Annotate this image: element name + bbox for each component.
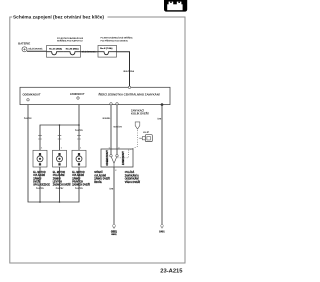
svg-text:G601: G601 bbox=[111, 234, 117, 236]
motor box M2 (left rear door lock actuator) bbox=[53, 150, 67, 167]
wire label ŽLU/ČRV bbox=[24, 117, 33, 120]
svg-text:ZAMYKÁNÍ A: ZAMYKÁNÍ A bbox=[125, 174, 139, 177]
svg-text:ŽLU/ČRV: ŽLU/ČRV bbox=[56, 187, 65, 190]
svg-text:2: 2 bbox=[115, 170, 116, 172]
junction node distributor-motor2 bbox=[59, 124, 61, 126]
title: Schéma zapojení (bez otvírání bez klíče) bbox=[13, 15, 104, 20]
pin number 3 at switch bbox=[118, 147, 119, 149]
motor M2 label bbox=[53, 172, 71, 186]
terminal: lock switch 2 bbox=[116, 103, 118, 105]
wire lock output distributor bbox=[40, 105, 79, 151]
fuse No.21 (80A) bbox=[47, 47, 64, 55]
svg-text:ODEMKNOUT: ODEMKNOUT bbox=[105, 150, 109, 166]
motor box M3 (right rear door lock actuator) bbox=[72, 150, 86, 167]
terminal: power input from fuse bbox=[128, 86, 130, 88]
switch label ODEMKNOUT (vertical) bbox=[105, 150, 109, 166]
fuse box under dash (outline) bbox=[98, 45, 117, 57]
svg-text:ZAMKNOUT: ZAMKNOUT bbox=[70, 92, 85, 96]
svg-text:Schéma zapojení (bez otvírání: Schéma zapojení (bez otvírání bez klíče) bbox=[13, 15, 104, 20]
svg-text:POD PŘÍSTROJOVOU DESKOU: POD PŘÍSTROJOVOU DESKOU bbox=[101, 40, 129, 43]
wire motor1 to bus with label ŽLU/ČRV bbox=[36, 167, 45, 202]
svg-text:BÍLÁ/ČERVENÁ: BÍLÁ/ČERVENÁ bbox=[29, 48, 44, 51]
svg-text:ODEMYKÁNÍ: ODEMYKÁNÍ bbox=[125, 178, 139, 181]
wire battery to under-hood fuse box bbox=[27, 50, 47, 52]
pin number 1 at motor2 bbox=[61, 148, 62, 150]
svg-text:POJISTKOVÁ/RELÉOVÁ: POJISTKOVÁ/RELÉOVÁ bbox=[57, 37, 84, 40]
ground G551 bbox=[111, 224, 118, 236]
page number 23-A215 bbox=[160, 268, 183, 274]
switch label ZAMKNOUT (vertical) bbox=[121, 151, 125, 165]
svg-text:MOD/ČRV: MOD/ČRV bbox=[113, 126, 122, 129]
mechanical linkage (dashed) knob to switch bbox=[117, 130, 138, 158]
fuse box under hood (outline) bbox=[47, 46, 81, 58]
wire label ČRN bbox=[157, 117, 162, 120]
motor box M1 (passenger door lock actuator) bbox=[33, 150, 47, 167]
svg-text:23-A215: 23-A215 bbox=[160, 268, 183, 274]
control unit box bbox=[20, 87, 170, 104]
svg-text:OVLÁDÁNÍ: OVLÁDÁNÍ bbox=[53, 174, 65, 177]
switch S1 contacts and arm bbox=[110, 155, 118, 168]
junction node bus-motor1 bbox=[39, 201, 41, 203]
wire label ČRN bbox=[109, 187, 114, 190]
wire label ŽLU/ČRV bbox=[75, 129, 84, 132]
svg-text:KOLÍK DVEŘÍ: KOLÍK DVEŘÍ bbox=[131, 113, 149, 116]
svg-text:OVLÁDÁ: OVLÁDÁ bbox=[125, 171, 135, 174]
svg-text:ŽLU/ČRV: ŽLU/ČRV bbox=[36, 187, 45, 190]
svg-text:PRAVÝCH: PRAVÝCH bbox=[72, 180, 83, 183]
fuse No.8 (7.5A) bbox=[98, 47, 117, 55]
page frame bbox=[10, 17, 185, 263]
junction node bus-motor2 bbox=[59, 201, 61, 203]
pin number 1 at switch bbox=[109, 147, 110, 149]
svg-text:ŽLU/ČRV: ŽLU/ČRV bbox=[75, 187, 84, 190]
svg-text:MOD/BÍL: MOD/BÍL bbox=[103, 117, 111, 120]
wire fuse No.8 to control unit bbox=[117, 52, 130, 88]
wire control unit to ground G401 bbox=[161, 105, 163, 225]
wires control unit to driver lock switch bbox=[111, 105, 117, 155]
wire motor2 to bus with label ŽLU/ČRV bbox=[56, 167, 65, 202]
wire label MOD/BÍL bbox=[103, 117, 111, 120]
svg-text:ŘIDIČE: ŘIDIČE bbox=[94, 181, 102, 184]
svg-text:POJISTKOVÁ/RELÉOVÁ SKŘÍŇKA: POJISTKOVÁ/RELÉOVÁ SKŘÍŇKA bbox=[101, 37, 133, 40]
wire switch to ground G551 bbox=[113, 167, 115, 224]
svg-text:1: 1 bbox=[41, 148, 42, 150]
svg-text:G401: G401 bbox=[159, 231, 165, 234]
pin number 1 at motor1 bbox=[41, 148, 42, 150]
svg-text:ŘÍDÍCÍ JEDNOTKA CENTRÁLNÍHO ZA: ŘÍDÍCÍ JEDNOTKA CENTRÁLNÍHO ZAMYKÁNÍ bbox=[99, 91, 160, 96]
key symbol bbox=[140, 135, 152, 142]
svg-text:LEVÝCH: LEVÝCH bbox=[53, 180, 63, 183]
wire label BÍLÁ/ČERVENÁ bbox=[29, 48, 44, 51]
fuse/relay box under hood (label) bbox=[57, 37, 84, 43]
door lock knob symbol bbox=[135, 122, 140, 129]
wire label ŽLU/ČRV on motor3 bus leg bbox=[75, 187, 84, 190]
svg-text:DVEŘÍ: DVEŘÍ bbox=[33, 180, 40, 183]
svg-text:ZÁMKU DVEŘÍ: ZÁMKU DVEŘÍ bbox=[94, 178, 110, 181]
svg-text:ZÁMKU: ZÁMKU bbox=[72, 177, 80, 180]
driver lock switch label SPÍNAČ bbox=[94, 171, 110, 184]
svg-text:SKŘÍŇKA POD KAPOTOU: SKŘÍŇKA POD KAPOTOU bbox=[57, 40, 83, 43]
svg-text:BATERIE: BATERIE bbox=[18, 43, 31, 46]
terminal label ZAMKNOUT bbox=[70, 92, 85, 99]
svg-text:KLÍČ: KLÍČ bbox=[143, 131, 149, 134]
mechanical linkage (dashed) key to knob rod bbox=[138, 137, 140, 139]
inline connector on motor 3 wire bbox=[77, 135, 81, 139]
control unit label ŘÍDÍCÍ JEDNOTKA CENTRÁLNÍHO ZAMYKÁNÍ bbox=[99, 91, 160, 96]
battery B1 bbox=[18, 43, 31, 52]
svg-text:VŠECH DVEŘÍ: VŠECH DVEŘÍ bbox=[125, 181, 141, 184]
svg-text:No.8 (7.5A): No.8 (7.5A) bbox=[100, 47, 112, 50]
svg-text:1: 1 bbox=[61, 148, 62, 150]
motor M1 label bbox=[33, 172, 50, 186]
svg-text:SPÍNAČ: SPÍNAČ bbox=[94, 171, 103, 174]
door lock knob label ZAMYKACÍ KOLÍK DVEŘÍ bbox=[131, 109, 149, 115]
section icon: battery in black box bbox=[164, 0, 187, 12]
svg-text:BÍLÁ/ČERVENÁ: BÍLÁ/ČERVENÁ bbox=[82, 51, 96, 54]
svg-text:ZADNÍCH DVEŘÍ: ZADNÍCH DVEŘÍ bbox=[72, 184, 90, 187]
inline connector on motor 2 wire bbox=[58, 135, 62, 139]
svg-text:ODEMKNOUT: ODEMKNOUT bbox=[23, 92, 41, 96]
motor M3 label bbox=[72, 172, 90, 186]
terminal: ground output bbox=[161, 103, 163, 105]
svg-text:SPOLUJEZDCE: SPOLUJEZDCE bbox=[33, 185, 50, 187]
wire unlock output down to common bus bbox=[28, 105, 79, 202]
wire label MOD/ČRV bbox=[113, 126, 122, 129]
fuse/relay box under dash (label) bbox=[101, 37, 133, 43]
fuse No.20 (80A) bbox=[64, 47, 81, 55]
terminal: lock switch 1 bbox=[110, 103, 112, 105]
svg-text:ČRN: ČRN bbox=[157, 117, 162, 120]
junction node distributor-motor3 bbox=[78, 124, 80, 126]
svg-text:OVLÁDÁNÍ: OVLÁDÁNÍ bbox=[72, 174, 84, 177]
pin number 2 at switch common bbox=[115, 170, 116, 172]
svg-text:No.21 (80A): No.21 (80A) bbox=[49, 47, 62, 50]
driver door lock switch box bbox=[101, 149, 133, 167]
wire label BÍLÁ/ČERVENÁ bbox=[82, 51, 96, 54]
svg-text:ČRN: ČRN bbox=[109, 187, 114, 190]
svg-text:OVLÁDÁNÍ: OVLÁDÁNÍ bbox=[33, 174, 45, 177]
svg-text:ŽLU/ČRV: ŽLU/ČRV bbox=[75, 129, 84, 132]
ground G401 bbox=[159, 225, 165, 234]
key label KLÍČ bbox=[143, 131, 149, 134]
svg-text:No.20 (80A): No.20 (80A) bbox=[66, 47, 79, 50]
inline connector on motor 1 wire bbox=[38, 135, 42, 139]
note label OVLÁDÁ bbox=[125, 171, 141, 184]
wire between fuse boxes bbox=[81, 51, 99, 53]
terminal label ODEMKNOUT bbox=[23, 92, 41, 101]
pin number 1 at motor3 bbox=[80, 148, 81, 150]
svg-text:1: 1 bbox=[80, 148, 81, 150]
svg-text:EL. MOTOR: EL. MOTOR bbox=[72, 172, 85, 174]
wire label BÍLÁ/ČERNÁ bbox=[123, 70, 134, 73]
svg-text:OVLÁDÁNÍ: OVLÁDÁNÍ bbox=[94, 174, 106, 177]
svg-text:ZADNÍCH DVEŘÍ: ZADNÍCH DVEŘÍ bbox=[53, 184, 71, 187]
svg-text:ŽLU/ČRV: ŽLU/ČRV bbox=[24, 117, 33, 120]
svg-text:BÍLÁ/ČERNÁ: BÍLÁ/ČERNÁ bbox=[123, 70, 134, 73]
